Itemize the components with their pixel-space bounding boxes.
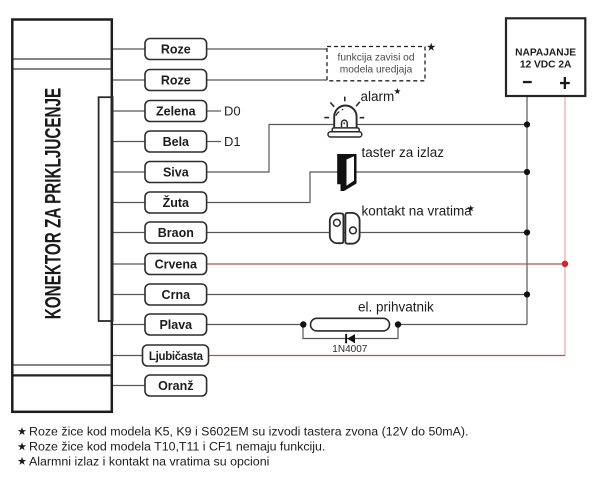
svg-text:NAPAJANJE: NAPAJANJE	[515, 48, 576, 59]
svg-text:Alarmni izlaz i kontakt na vra: Alarmni izlaz i kontakt na vratima su op…	[29, 454, 269, 468]
svg-text:Braon: Braon	[158, 226, 194, 240]
svg-text:Bela: Bela	[163, 135, 190, 149]
svg-text:Zelena: Zelena	[156, 104, 197, 118]
svg-text:Ljubičasta: Ljubičasta	[149, 351, 204, 363]
svg-text:Oranž: Oranž	[158, 379, 193, 393]
svg-text:Žuta: Žuta	[163, 195, 190, 210]
svg-text:D1: D1	[224, 134, 241, 149]
svg-text:kontakt na vratima: kontakt na vratima	[362, 204, 473, 219]
svg-text:alarm: alarm	[361, 89, 395, 104]
svg-text:Roze žice kod modela T10,T11 i: Roze žice kod modela T10,T11 i CF1 nemaj…	[29, 440, 325, 454]
svg-text:Roze žice kod modela K5, K9 i: Roze žice kod modela K5, K9 i S602EM su …	[29, 425, 468, 439]
svg-text:1N4007: 1N4007	[332, 344, 367, 355]
svg-text:Crna: Crna	[162, 288, 192, 302]
svg-text:modela uredjaja: modela uredjaja	[340, 65, 413, 76]
svg-text:Plava: Plava	[159, 318, 193, 332]
svg-text:funkcija zavisi od: funkcija zavisi od	[337, 53, 414, 64]
svg-text:Crvena: Crvena	[155, 257, 198, 271]
svg-text:Roze: Roze	[161, 42, 191, 56]
svg-text:el. prihvatnik: el. prihvatnik	[358, 300, 434, 315]
svg-text:taster za izlaz: taster za izlaz	[362, 145, 445, 160]
svg-text:Siva: Siva	[163, 165, 190, 179]
svg-text:D0: D0	[224, 104, 241, 119]
svg-text:Roze: Roze	[161, 73, 191, 87]
svg-text:12 VDC 2A: 12 VDC 2A	[520, 60, 572, 71]
svg-text:KONEKTOR ZA PRIKLJUCENJE: KONEKTOR ZA PRIKLJUCENJE	[42, 88, 66, 319]
